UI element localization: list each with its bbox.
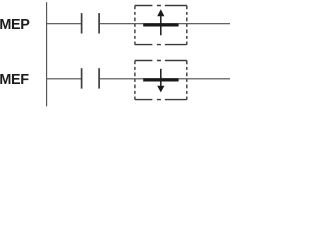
MEP instruction dashed box left edge: [134, 6, 136, 45]
MEP instruction dashed box bottom edge: [135, 44, 187, 46]
MEF falling-edge thick bar: [143, 78, 178, 81]
MEP up arrow head: [157, 9, 164, 16]
contact rung2 left bar: [81, 68, 83, 88]
MEF down arrow stem: [160, 69, 162, 87]
wire rung1 MEP symbol to right edge: [179, 23, 230, 25]
contact rung2 right bar: [98, 68, 100, 88]
MEF down arrow head: [157, 86, 164, 93]
wire rung1 rail to contact: [47, 23, 82, 25]
MEP instruction dashed box right edge: [186, 6, 188, 45]
MEF instruction dashed box left edge: [134, 61, 136, 100]
left power rail: [46, 2, 48, 106]
MEP up arrow stem: [160, 15, 162, 35]
MEF instruction dashed box right edge: [186, 61, 188, 100]
contact rung1 right bar: [98, 13, 100, 33]
svg-text:MEF: MEF: [0, 72, 29, 88]
wire rung2 MEF symbol to right edge: [179, 78, 230, 80]
contact rung1 left bar: [81, 13, 83, 33]
wire rung1 contact to MEP symbol: [99, 23, 143, 25]
MEP instruction dashed box top edge: [135, 5, 187, 7]
MEP rising-edge thick bar: [143, 23, 178, 26]
wire rung2 rail to contact: [47, 78, 82, 80]
MEF instruction dashed box top edge: [135, 60, 187, 62]
MEF instruction dashed box bottom edge: [135, 99, 187, 101]
wire rung2 contact to MEF symbol: [99, 78, 143, 80]
svg-text:MEP: MEP: [0, 17, 30, 33]
